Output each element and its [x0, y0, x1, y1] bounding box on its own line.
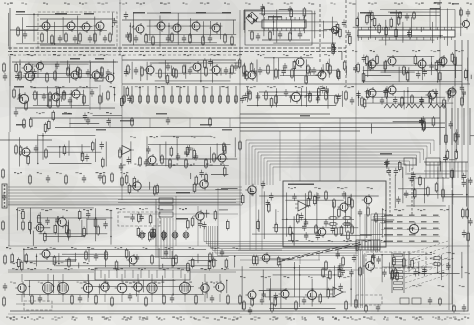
transistor TR37 [407, 222, 419, 235]
capacitor C31 [42, 93, 46, 101]
capacitor C125 [356, 91, 360, 99]
resistor R48 [337, 68, 340, 79]
supply rail [8, 313, 470, 315]
resistor R275 [212, 257, 215, 268]
wire mesh [132, 60, 237, 83]
wire [188, 259, 217, 261]
tuning coil L12 [161, 230, 167, 240]
transistor TR2 [65, 20, 76, 32]
resistor R209 [119, 148, 122, 159]
bus wire [208, 226, 358, 246]
resistor R121 [257, 220, 260, 231]
transistor TR50 [305, 288, 317, 301]
wire [40, 44, 115, 46]
resistor R280 [187, 262, 190, 273]
wire [21, 274, 23, 282]
value label [96, 129, 106, 131]
resistor R97 [213, 152, 216, 163]
capacitor C118 [112, 18, 116, 26]
capacitor C42 [194, 153, 198, 161]
capacitor C39 [34, 145, 38, 153]
rotary switch contact [278, 260, 285, 262]
resistor R171 [385, 88, 388, 99]
resistor R228 [314, 195, 317, 206]
bridge rectifier D1 [246, 12, 258, 24]
wire [393, 121, 424, 123]
resistor R197 [366, 14, 369, 25]
resistor R138 [111, 296, 114, 307]
wire [130, 213, 238, 215]
resistor R213 [391, 269, 394, 280]
resistor R83 [335, 94, 338, 105]
resistor R247 [223, 166, 226, 177]
capacitor C60 [462, 179, 466, 187]
capacitor C172 [62, 90, 66, 98]
bus wire [451, 108, 453, 145]
value label [133, 12, 145, 14]
bus wire [240, 113, 330, 115]
resistor R150 [29, 117, 32, 128]
capacitor C13 [278, 31, 282, 39]
value label [421, 215, 427, 217]
resistor R118 [335, 226, 338, 237]
wire [195, 86, 197, 104]
resistor R129 [435, 182, 438, 193]
capacitor C55 [324, 219, 328, 227]
rotary switch contact [326, 250, 333, 252]
resistor R245 [193, 182, 196, 193]
wire [211, 174, 228, 176]
value labels [288, 240, 387, 242]
rotary switch wafer wire [322, 249, 330, 251]
capacitor C8 [182, 35, 186, 43]
resistor R31 [54, 70, 57, 81]
capacitor C4 [88, 35, 92, 43]
wire [279, 8, 289, 10]
coil L3 [428, 104, 446, 108]
resistor R193 [172, 67, 175, 78]
bus wire [373, 216, 386, 252]
resistor R284 [342, 256, 345, 267]
capacitor C2 [58, 35, 62, 43]
resistor R241 [133, 176, 136, 187]
wire [65, 259, 77, 261]
wire [20, 212, 22, 215]
value label [421, 234, 427, 236]
resistor R145 [295, 300, 298, 311]
resistor R273 [445, 133, 448, 144]
wire [40, 18, 115, 20]
value label [409, 234, 415, 236]
resistor R300 [49, 91, 52, 102]
value label [16, 124, 25, 126]
resistor R190 [411, 258, 414, 269]
resistor R279 [20, 260, 23, 271]
value label [120, 120, 134, 122]
wire [323, 28, 335, 30]
resistor R54 [403, 65, 406, 76]
wire [262, 258, 292, 260]
resistor R71 [187, 94, 190, 104]
transistor TR16 [191, 61, 202, 73]
value labels [10, 262, 89, 264]
value label [222, 12, 231, 14]
bus header wire [424, 170, 468, 172]
resistor R77 [235, 94, 238, 104]
resistor R255 [137, 226, 140, 237]
bus wire [454, 40, 456, 86]
resistor R17 [262, 6, 265, 17]
bus wire [166, 218, 168, 258]
wire [155, 86, 157, 104]
wire [429, 8, 431, 30]
wire [219, 209, 228, 211]
capacitor C135 [18, 93, 22, 101]
switch contact S7 [394, 287, 403, 289]
value label [176, 218, 188, 220]
resistor R38 [175, 68, 178, 79]
bus wire [251, 146, 253, 185]
capacitor C173 [341, 267, 345, 275]
resistor R131 [105, 250, 108, 261]
wire [439, 161, 441, 171]
wire [441, 162, 443, 178]
op-amp A1 [119, 146, 134, 155]
transistor TR5 [134, 23, 145, 35]
resistor R29 [19, 70, 22, 81]
resistor R91 [45, 148, 48, 159]
capacitor C30 [429, 62, 433, 70]
resistor R130 [85, 250, 88, 261]
supply rail [8, 203, 240, 205]
resistor R164 [245, 70, 248, 81]
resistor R179 [172, 256, 175, 267]
switch contact wire [100, 270, 102, 278]
capacitor C108 [446, 262, 450, 270]
capacitor C145 [3, 283, 7, 291]
capacitor C17 [466, 9, 470, 17]
value label [55, 13, 67, 15]
resistor R202 [250, 62, 253, 73]
bus wire [160, 218, 162, 258]
resistor R221 [439, 71, 442, 82]
resistor R285 [239, 294, 242, 305]
resistor R227 [307, 197, 310, 208]
wire mesh [358, 86, 464, 109]
wire [104, 294, 106, 302]
resistor R32 [67, 66, 70, 77]
transistor TR4 [94, 20, 105, 32]
wire [62, 253, 108, 255]
wire [131, 26, 133, 28]
capacitor C151 [316, 233, 320, 241]
value labels [418, 272, 470, 274]
wire [187, 86, 189, 104]
wire [23, 260, 76, 262]
resistor R229 [348, 196, 351, 207]
resistor R105 [22, 210, 25, 221]
bus wire [457, 108, 459, 145]
capacitor C175 [349, 269, 353, 277]
capacitor C78 [428, 297, 432, 305]
wire [444, 196, 474, 198]
capacitor C120 [362, 55, 366, 63]
resistor R15 [231, 35, 234, 46]
wire [293, 216, 295, 245]
capacitor C3 [73, 35, 77, 43]
resistor R9 [145, 33, 148, 44]
resistor R238 [4, 254, 7, 265]
wire [243, 10, 245, 30]
capacitor C52 [342, 191, 346, 199]
transistor TR22 [386, 55, 397, 67]
resistor R167 [326, 61, 329, 72]
resistor R268 [466, 208, 469, 219]
switch contact S3 [394, 265, 403, 267]
wire [261, 186, 263, 250]
resistor R18 [290, 8, 293, 19]
capacitor C95 [460, 84, 464, 92]
capacitor C106 [414, 269, 418, 277]
resistor R276 [191, 258, 194, 269]
wire [10, 29, 38, 31]
resistor R49 [369, 60, 372, 71]
capacitor C166 [55, 216, 59, 224]
resistor R299 [57, 97, 60, 108]
resistor R122 [275, 222, 278, 233]
switch contact S1 [394, 254, 403, 256]
bus wire [169, 218, 171, 258]
wire [360, 233, 383, 235]
bus wire [439, 0, 441, 178]
rotary switch contact [297, 256, 304, 258]
capacitor C171 [166, 117, 170, 125]
capacitor C75 [210, 295, 214, 303]
bus wire [267, 160, 410, 162]
resistor R239 [3, 296, 6, 307]
resistor R160 [19, 145, 22, 156]
resistor R46 [307, 64, 310, 75]
capacitor C142 [371, 253, 375, 261]
wire [199, 212, 209, 214]
resistor R187 [359, 266, 362, 277]
switch contact wire [124, 270, 126, 278]
resistor R26 [399, 11, 402, 20]
capacitor C139 [299, 213, 303, 221]
resistor R69 [171, 94, 174, 104]
resistor R55 [435, 60, 438, 71]
capacitor C77 [302, 297, 306, 305]
capacitor C81 [127, 157, 131, 165]
capacitor C26 [283, 63, 287, 71]
resistor R144 [271, 302, 274, 313]
resistor R1 [17, 26, 20, 37]
resistor R287 [22, 220, 25, 231]
bus wire [463, 108, 465, 145]
capacitor C63 [404, 190, 408, 198]
value labels [116, 208, 187, 210]
capacitor C119 [242, 71, 246, 79]
component reference labels [6, 317, 469, 319]
resistor R104 [121, 176, 124, 187]
bus wire [433, 140, 435, 151]
bus wire [248, 143, 250, 185]
harness wire [8, 195, 242, 197]
bus wire [257, 152, 259, 185]
selector wire [405, 275, 448, 289]
diode D2 [253, 18, 257, 22]
resistor R120 [241, 194, 244, 205]
wire [280, 261, 282, 268]
op-amp A3 [330, 287, 346, 297]
transistor TR59 [34, 222, 44, 234]
resistor R96 [205, 158, 208, 169]
resistor R286 [355, 298, 358, 309]
resistor R216 [349, 34, 352, 45]
capacitor C11 [260, 4, 264, 12]
resistor R33 [79, 68, 82, 79]
capacitor C123 [247, 89, 251, 97]
value label [384, 215, 393, 217]
resistor R110 [97, 225, 100, 236]
capacitor C144 [3, 73, 7, 81]
wire [150, 62, 191, 64]
resistor R115 [367, 206, 370, 217]
value labels [14, 172, 128, 174]
transistor TR30 [426, 89, 437, 101]
wire [211, 86, 213, 104]
resistor R60 [83, 94, 86, 105]
capacitor C147 [198, 220, 202, 228]
resistor R274 [454, 132, 457, 143]
value label [397, 221, 403, 223]
value label [384, 241, 393, 243]
wire [470, 135, 474, 137]
transistor TR1 [40, 20, 51, 32]
wire [69, 123, 99, 125]
wire [229, 118, 231, 128]
value label [222, 129, 232, 131]
resistor R277 [208, 260, 211, 271]
resistor R20 [269, 30, 272, 41]
diode D1 [248, 14, 252, 18]
bus wire [402, 167, 404, 178]
resistor R153 [193, 149, 196, 160]
resistor R100 [398, 160, 401, 171]
rotary switch contact [354, 244, 361, 246]
capacitor C117 [124, 12, 128, 20]
value label [84, 13, 94, 15]
transistor TR41 [15, 282, 26, 294]
wire [366, 96, 369, 98]
capacitor C59 [261, 181, 265, 189]
IF transformer T2 [57, 280, 68, 295]
shield box noise blanker [118, 212, 160, 226]
resistor R81 [309, 92, 312, 103]
resistor R34 [101, 66, 104, 77]
resistor R52 [406, 71, 409, 82]
switch contact wire [108, 270, 110, 278]
value label [433, 234, 439, 236]
capacitor C130 [462, 304, 466, 312]
wire mesh [18, 59, 114, 83]
resistor R259 [153, 227, 156, 238]
transistor TR58 [260, 252, 270, 264]
bus wire [249, 142, 431, 144]
capacitor C67 [394, 168, 398, 176]
capacitor C50 [86, 211, 90, 219]
wire mesh [130, 13, 237, 47]
capacitor C24 [224, 67, 228, 75]
op-amp A2 [295, 201, 311, 211]
resistor R93 [161, 154, 164, 165]
resistor R231 [296, 213, 299, 224]
resistor R19 [251, 30, 254, 41]
value label [433, 215, 439, 217]
capacitor C121 [353, 65, 357, 73]
resistor R103 [103, 174, 106, 185]
capacitor C176 [332, 44, 336, 52]
wire [122, 44, 236, 46]
tuning coil L11 [150, 230, 156, 240]
wire [78, 263, 80, 269]
resistor R92 [139, 156, 142, 167]
resistor R297 [209, 117, 212, 127]
transistor TR45 [131, 281, 142, 293]
capacitor C96 [434, 89, 438, 97]
wire [433, 162, 435, 178]
resistor R14 [224, 33, 227, 44]
resistor R170 [448, 88, 451, 99]
wire [381, 235, 440, 237]
capacitor C164 [336, 251, 340, 259]
resistor R111 [309, 190, 312, 201]
capacitor C35 [284, 89, 288, 97]
bus wire [469, 108, 471, 145]
capacitor C160 [456, 132, 460, 140]
capacitor C157 [419, 118, 423, 126]
wire [109, 118, 111, 128]
capacitor C79 [83, 113, 87, 121]
value label [434, 2, 442, 4]
wire mesh [131, 136, 235, 166]
wire [93, 114, 122, 116]
wire [155, 206, 157, 246]
resistor R47 [329, 64, 332, 75]
resistor R134 [209, 252, 212, 263]
transistor TR3 [80, 21, 91, 33]
capacitor C34 [256, 93, 260, 101]
bus wire [270, 163, 406, 165]
resistor R95 [185, 158, 188, 169]
wire [408, 67, 410, 81]
transistor TR56 [197, 178, 208, 190]
resistor R133 [175, 254, 178, 265]
value labels [6, 247, 238, 249]
wire [435, 8, 437, 30]
transistor TR40 [127, 254, 138, 266]
transistor TR54 [362, 194, 372, 206]
transistor TR20 [316, 69, 327, 81]
resistor R72 [195, 94, 198, 104]
coil L2 [406, 104, 424, 108]
capacitor C177 [338, 263, 342, 271]
resistor R42 [243, 64, 246, 75]
bus wire [269, 164, 271, 185]
wire [67, 60, 69, 70]
resistor R206 [363, 98, 366, 109]
transistor TR51 [363, 260, 374, 273]
